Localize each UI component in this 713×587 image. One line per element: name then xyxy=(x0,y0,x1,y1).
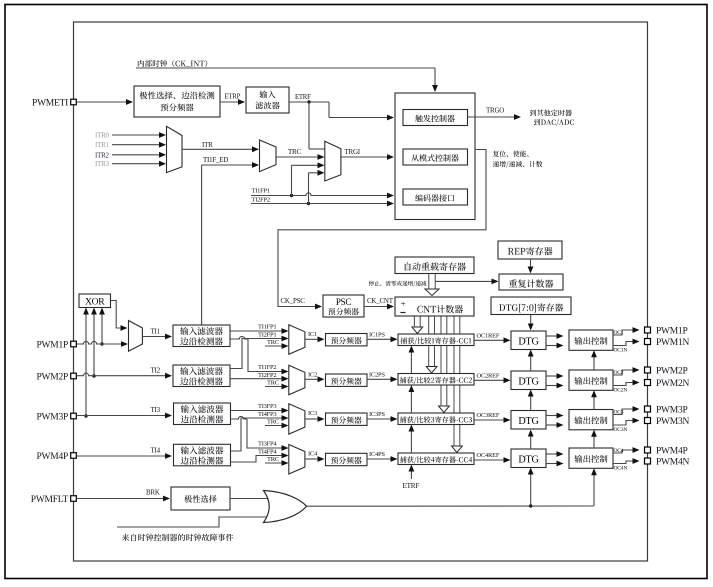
label TRC (top) xyxy=(288,148,301,156)
svg-text:TI4: TI4 xyxy=(151,447,161,455)
block 预分频器 CH4 xyxy=(326,453,368,465)
block 输出控制 CH2 xyxy=(569,370,613,390)
wire internal clock CK_INT xyxy=(136,68,438,92)
label TI2 xyxy=(151,367,161,375)
wire PWM3P (TI3) xyxy=(77,413,173,419)
svg-text:IC1PS: IC1PS xyxy=(369,331,385,338)
label IC2PS xyxy=(369,371,385,378)
svg-text:ETRP: ETRP xyxy=(225,94,241,101)
terminal PWM4N output xyxy=(645,458,651,464)
label ETRF xyxy=(295,94,311,101)
block PSC 预分频器 xyxy=(323,295,364,317)
svg-text:PWM1N: PWM1N xyxy=(656,338,689,348)
terminal PWM1P input xyxy=(71,341,77,347)
label TRC (ch3) xyxy=(267,419,279,426)
svg-text:IC4PS: IC4PS xyxy=(369,451,385,458)
label PWMETI xyxy=(32,98,68,108)
svg-text:BRK: BRK xyxy=(146,489,160,497)
svg-text:PWM4P: PWM4P xyxy=(37,452,68,462)
label TRC (ch2) xyxy=(267,380,279,387)
svg-text:PWM4P: PWM4P xyxy=(656,446,687,456)
terminal PWM1N output xyxy=(645,339,651,345)
svg-text:TI1: TI1 xyxy=(151,328,161,336)
wire ITR0 xyxy=(112,132,166,138)
svg-text:IC2: IC2 xyxy=(308,371,317,378)
label PWM3P (output) xyxy=(656,405,687,415)
wire TI2FP2 to encoder xyxy=(251,201,394,207)
block 捕获/比较4寄存器-CC4 xyxy=(398,453,474,465)
wire TRGI xyxy=(341,154,394,160)
svg-text:XOR: XOR xyxy=(85,297,105,308)
block 从模式控制器 xyxy=(403,149,468,165)
label TI2FP1 (ch1) xyxy=(258,331,276,338)
terminal PWMFLT input xyxy=(71,496,77,502)
label TI3FP3 (ch3) xyxy=(258,403,276,410)
svg-text:TI3FP4: TI3FP4 xyxy=(258,441,277,448)
wire REP to repetition counter xyxy=(528,259,534,274)
wire TRC stub ch4 xyxy=(265,460,289,466)
wire IC3 xyxy=(305,416,325,422)
wire ITR xyxy=(182,146,259,152)
wire PWMETI to polarity box xyxy=(77,99,134,105)
wire OCTL3 to OCTL2 xyxy=(591,390,597,409)
svg-text:PWM2P: PWM2P xyxy=(37,372,68,382)
svg-text:PWMETI: PWMETI xyxy=(32,98,68,108)
block 极性选择 (brake polarity) xyxy=(171,487,230,510)
node ETRF junction xyxy=(307,100,310,103)
svg-text:DTG: DTG xyxy=(518,455,539,466)
label TI4FP4 (ch4) xyxy=(258,449,277,456)
wire TRC stub ch1 xyxy=(265,343,289,349)
label TI4 xyxy=(151,447,161,455)
wire TRGO xyxy=(468,114,522,120)
wire CC4 to CC3 capture xyxy=(409,425,415,454)
label OC1REF xyxy=(477,332,500,339)
wire OC1REF xyxy=(474,337,511,343)
bus CNT to CC3 (hollow arrow) xyxy=(439,316,450,413)
wire TRC to TRGI mux xyxy=(276,154,325,160)
block 输入滤波器边沿检测器 CH4 xyxy=(174,444,231,466)
wire IC2PS xyxy=(367,376,398,382)
wire BRK xyxy=(77,496,171,502)
wire OC1N xyxy=(613,339,640,346)
label 复位、使能、递增/递减、计数 xyxy=(493,151,543,168)
wire IC4 xyxy=(305,456,325,462)
wire brake to DTG4 xyxy=(528,468,534,507)
mux IC4 select xyxy=(289,445,305,475)
wire DTG register to DTG1 xyxy=(528,315,534,331)
wire TI2FP2 xyxy=(230,376,289,382)
svg-text:PWM3P: PWM3P xyxy=(37,412,68,422)
svg-text:TRC: TRC xyxy=(288,148,301,156)
wire IC2 xyxy=(305,376,325,382)
wire ITR1 xyxy=(112,142,166,148)
wire DTG4 to DTG3 xyxy=(528,430,534,450)
svg-text:TI4FP3: TI4FP3 xyxy=(258,411,276,418)
wire slave-mode control to PSC (CK_PSC) xyxy=(278,150,486,310)
label PWM3P (input) xyxy=(37,412,68,422)
svg-text:TI2FP2: TI2FP2 xyxy=(252,197,270,204)
terminal PWM2P input xyxy=(71,373,77,379)
node TI2FP2 junction xyxy=(307,202,310,205)
mux TRGI select xyxy=(325,141,341,181)
wire OCTL2 to OCTL1 xyxy=(591,350,597,370)
wire ITR3 xyxy=(112,161,166,167)
svg-text:DTG: DTG xyxy=(518,377,539,388)
label 内部时钟（CK_INT） xyxy=(138,60,207,67)
label PWM1P (input) xyxy=(37,340,68,350)
terminal PWM3N output xyxy=(645,418,651,424)
label IC3 xyxy=(308,410,317,417)
label PWM4P (output) xyxy=(656,446,687,456)
label 来自时钟控制器的时钟故障事件 xyxy=(122,534,234,541)
wire OC2REF xyxy=(474,377,511,383)
label TI1FP1 (ch1) xyxy=(258,324,276,331)
wire IC3PS xyxy=(367,416,398,422)
svg-text:ETRF: ETRF xyxy=(403,482,420,490)
wire TI2FP2 up to TRGI mux xyxy=(309,170,325,204)
svg-text:IC1: IC1 xyxy=(308,331,317,338)
svg-text:TI2FP1: TI2FP1 xyxy=(258,331,276,338)
block trigger-slave-encoder container xyxy=(395,93,475,220)
wire brake to OCTL4 xyxy=(591,468,597,506)
svg-text:OC4: OC4 xyxy=(614,448,624,454)
wire TI1F_ED xyxy=(202,162,259,325)
wire TI4FP3 xyxy=(231,415,289,451)
label OC2 xyxy=(614,370,624,376)
label OC2N xyxy=(614,388,628,394)
svg-text:OC1: OC1 xyxy=(614,330,624,336)
block 捕获/比较1寄存器-CC1 xyxy=(398,334,474,346)
label TI1F_ED xyxy=(203,156,228,164)
block 预分频器 CH3 xyxy=(326,413,368,425)
wire DTG1 to output control xyxy=(546,333,564,348)
svg-text:ITR0: ITR0 xyxy=(95,132,110,140)
mux TRC select xyxy=(260,140,277,172)
svg-text:TI4FP4: TI4FP4 xyxy=(258,449,277,456)
label ITR1 xyxy=(95,141,110,149)
svg-text:OC3N: OC3N xyxy=(614,427,628,433)
block CNT计数器 xyxy=(395,297,474,316)
mux IC3 select xyxy=(289,404,305,434)
block 输入滤波器边沿检测器 CH3 xyxy=(174,403,231,425)
block DTG CH4 xyxy=(511,449,546,468)
label BRK xyxy=(146,489,160,497)
svg-text:PWM3N: PWM3N xyxy=(656,417,689,427)
wire TI1 xyxy=(142,334,172,340)
wire PWM2P (TI2) xyxy=(77,373,173,379)
label IC3PS xyxy=(369,411,385,418)
svg-text:OC2REF: OC2REF xyxy=(477,372,500,379)
block REP寄存器 xyxy=(498,241,562,259)
label TRGO xyxy=(486,107,504,115)
svg-text:IC3: IC3 xyxy=(308,410,317,417)
mux IC1 select xyxy=(289,325,305,355)
label ETRF (bottom) xyxy=(403,482,420,490)
label TI3 xyxy=(151,406,161,414)
wire TRC stub ch3 xyxy=(265,423,289,429)
wire PWM1P xyxy=(77,341,129,347)
svg-text:OC1N: OC1N xyxy=(614,348,628,354)
label 停止、清零或递增/递减 xyxy=(369,281,427,287)
svg-text:TI1FP2: TI1FP2 xyxy=(258,364,276,371)
label OC1 xyxy=(614,330,624,336)
label CK_PSC xyxy=(281,297,306,305)
svg-text:+: + xyxy=(401,299,406,309)
wire ETRP xyxy=(220,99,245,105)
wire PWM3P feed to XOR xyxy=(83,308,89,418)
block 编码器接口 xyxy=(403,189,468,205)
wire OC4 xyxy=(613,447,640,453)
mux ITR select xyxy=(167,126,183,172)
wire TI3FP3 xyxy=(231,408,289,414)
label TI1 xyxy=(151,328,161,336)
label OC4N xyxy=(614,466,628,472)
label ITR3 xyxy=(95,160,110,168)
wire auto-reload to repetition counter xyxy=(435,279,498,285)
svg-text:TI2: TI2 xyxy=(151,367,161,375)
label 到其他定时器 到DAC/ADC xyxy=(530,110,574,127)
svg-text:OC2: OC2 xyxy=(614,370,624,376)
wire TI1FP2 xyxy=(230,336,289,374)
label PWM2N (output) xyxy=(656,379,689,389)
bus auto-reload to CNT (hollow arrow) xyxy=(425,274,439,296)
block 捕获/比较3寄存器-CC3 xyxy=(398,413,474,425)
wire ITR2 xyxy=(112,152,166,158)
wire OCTL4 to OCTL3 xyxy=(591,430,597,448)
label PWM4P (input) xyxy=(37,452,68,462)
wire PWM2P feed to XOR xyxy=(91,308,97,378)
label OC1N xyxy=(614,348,628,354)
svg-text:DTG: DTG xyxy=(518,337,539,348)
label TI1FP2 (ch2) xyxy=(258,364,276,371)
wire TI1FP1 to encoder xyxy=(251,193,394,199)
wire OC1 xyxy=(613,327,640,335)
block 输入滤波器边沿检测器 CH2 xyxy=(173,365,230,387)
svg-text:IC2PS: IC2PS xyxy=(369,371,385,378)
label ITR2 xyxy=(95,151,110,159)
wire ETRF to trigger controller xyxy=(289,102,394,120)
svg-text:TRC: TRC xyxy=(267,339,279,346)
wire OC4REF xyxy=(474,457,511,463)
wire DTG2 to DTG1 xyxy=(528,350,534,372)
wire OC3N xyxy=(613,418,640,425)
wire XOR output to TI1 mux xyxy=(111,301,128,331)
wire CK_CNT xyxy=(364,304,394,310)
svg-text:PWMFLT: PWMFLT xyxy=(31,495,69,505)
bus CNT to CC4 (hollow arrow) xyxy=(452,316,463,453)
label IC1 xyxy=(308,331,317,338)
svg-text:ITR: ITR xyxy=(202,141,213,149)
svg-text:TI1FP1: TI1FP1 xyxy=(252,188,270,195)
svg-text:PWM2N: PWM2N xyxy=(656,379,689,389)
svg-text:TI3FP3: TI3FP3 xyxy=(258,403,276,410)
svg-text:DTG: DTG xyxy=(518,416,539,427)
svg-text:ETRF: ETRF xyxy=(295,94,311,101)
block 输入滤波器边沿检测器 CH1 xyxy=(173,325,230,347)
svg-text:PWM2P: PWM2P xyxy=(656,366,687,376)
block DTG CH2 xyxy=(511,371,546,390)
label IC1PS xyxy=(369,331,385,338)
svg-text:OC4N: OC4N xyxy=(614,466,628,472)
wire brake rail xyxy=(307,505,595,507)
wire IC1PS xyxy=(367,336,398,342)
label PWM2P (input) xyxy=(37,372,68,382)
block 自动重载寄存器 xyxy=(395,257,474,274)
block 重复计数器 xyxy=(499,274,563,290)
label OC3REF xyxy=(477,412,500,419)
mux TI1 select xyxy=(129,321,143,352)
block 预分频器 CH2 xyxy=(326,374,368,386)
node brake-DTG junction xyxy=(529,504,532,507)
label PWM1N (output) xyxy=(656,338,689,348)
wire DTG2 to output control xyxy=(546,373,564,388)
label OC4 xyxy=(614,448,624,454)
svg-text:ITR3: ITR3 xyxy=(95,160,110,168)
label TRC (ch4) xyxy=(267,456,279,463)
label CK_CNT xyxy=(367,297,394,305)
svg-text:TRGI: TRGI xyxy=(345,148,361,156)
label ITR0 xyxy=(95,132,110,140)
wire TI1FP1 xyxy=(230,328,289,334)
svg-text:PWM1P: PWM1P xyxy=(37,340,68,350)
wire DTG3 to output control xyxy=(546,413,564,428)
label OC2REF xyxy=(477,372,500,379)
svg-text:PWM4N: PWM4N xyxy=(656,457,689,467)
svg-text:CK_PSC: CK_PSC xyxy=(281,297,306,305)
terminal PWM2N output xyxy=(645,380,651,386)
wire TI4FP4 xyxy=(231,453,289,462)
svg-text:TI3: TI3 xyxy=(151,406,161,414)
wire CC2 to CC1 capture xyxy=(409,346,415,374)
svg-text:IC4: IC4 xyxy=(308,451,318,458)
label IC2 xyxy=(308,371,317,378)
wire OC3 xyxy=(613,406,640,414)
label PWM2P (output) xyxy=(656,366,687,376)
label TI2FP2 (encoder) xyxy=(252,197,270,204)
svg-text:ITR2: ITR2 xyxy=(95,151,110,159)
label OC4REF xyxy=(477,452,500,459)
block 捕获/比较2寄存器-CC2 xyxy=(398,374,474,386)
svg-text:TI2FP2: TI2FP2 xyxy=(258,372,276,379)
wire OC2 xyxy=(613,367,640,375)
svg-text:PWM1P: PWM1P xyxy=(656,326,687,336)
label ETRP xyxy=(225,94,241,101)
svg-text:TRGO: TRGO xyxy=(486,107,504,115)
label PWM1P (output) xyxy=(656,326,687,336)
wire TI2FP1 xyxy=(230,336,289,369)
wire TI3FP4 xyxy=(231,416,289,451)
label OC3N xyxy=(614,427,628,433)
terminal PWM1P output xyxy=(645,327,651,333)
svg-text:PWM3P: PWM3P xyxy=(656,405,687,415)
svg-text:OC1REF: OC1REF xyxy=(477,332,500,339)
label IC4 xyxy=(308,451,318,458)
wire PWM1P feed to XOR xyxy=(99,308,105,346)
svg-text:TI1F_ED: TI1F_ED xyxy=(203,156,228,164)
svg-text:TRC: TRC xyxy=(267,419,279,426)
wire ETRF into CC4 xyxy=(409,465,415,480)
bus CNT to CC2 (hollow arrow) xyxy=(426,316,437,373)
wire PWM4P (TI4) xyxy=(77,453,173,459)
label TI3FP4 (ch4) xyxy=(258,441,277,448)
wire TRC stub ch2 xyxy=(265,384,289,390)
block 输入滤波器 (ETR input filter) xyxy=(246,87,289,113)
terminal PWMETI xyxy=(71,99,77,105)
block XOR xyxy=(79,294,111,308)
block DTG CH3 xyxy=(511,411,546,430)
label PWM3N (output) xyxy=(656,417,689,427)
svg-text:TI1FP1: TI1FP1 xyxy=(258,324,276,331)
wire CC3 to CC2 capture xyxy=(409,385,415,413)
terminal PWM3P input xyxy=(71,413,77,419)
label TI1FP1 (encoder) xyxy=(252,188,270,195)
label TRC (ch1) xyxy=(267,339,279,346)
label TI4FP3 (ch3) xyxy=(258,411,276,418)
wire ETRF down to TRGI mux xyxy=(309,102,325,149)
terminal PWM4P input xyxy=(71,453,77,459)
wire OC3REF xyxy=(474,417,511,423)
wire OC2N xyxy=(613,380,640,386)
block 极性选择、边沿检测 预分频器 xyxy=(134,86,220,117)
svg-text:OC3: OC3 xyxy=(614,410,624,416)
label OC3 xyxy=(614,410,624,416)
label TRGI xyxy=(345,148,361,156)
label IC4PS xyxy=(369,451,385,458)
svg-text:TRC: TRC xyxy=(267,456,279,463)
block 输出控制 CH4 xyxy=(569,448,613,468)
block 输出控制 CH1 xyxy=(569,330,613,350)
gate OR (brake combine) xyxy=(264,491,307,523)
label TI2FP2 (ch2) xyxy=(258,372,276,379)
block 预分频器 CH1 xyxy=(326,334,368,346)
wire TI1FP1 up to TRGI mux xyxy=(292,162,325,195)
block DTG CH1 xyxy=(511,331,546,350)
label PWM4N (output) xyxy=(656,457,689,467)
bus CNT to CC1 (hollow arrow) xyxy=(412,316,423,334)
terminal PWM3P output xyxy=(645,406,651,412)
timer module boundary box xyxy=(74,22,648,561)
wire DTG3 to DTG2 xyxy=(528,390,534,411)
wire IC1 xyxy=(305,336,325,342)
terminal PWM4P output xyxy=(645,447,651,453)
label ITR xyxy=(202,141,213,149)
block 触发控制器 xyxy=(403,110,468,126)
svg-text:TRC: TRC xyxy=(267,380,279,387)
svg-text:OC2N: OC2N xyxy=(614,388,628,394)
wire IC4PS xyxy=(367,456,398,462)
svg-text:IC3PS: IC3PS xyxy=(369,411,385,418)
mux IC2 select xyxy=(289,365,305,395)
svg-text:PSC: PSC xyxy=(336,297,352,307)
wire OC4N xyxy=(613,458,640,464)
svg-text:OC3REF: OC3REF xyxy=(477,412,500,419)
wire polarity to OR gate xyxy=(230,498,269,500)
label PWMFLT xyxy=(31,495,69,505)
wire clock failure event xyxy=(117,517,268,527)
block DTG[7:0]寄存器 xyxy=(491,297,571,315)
terminal PWM2P output xyxy=(645,367,651,373)
svg-text:CK_CNT: CK_CNT xyxy=(367,297,394,305)
svg-text:OC4REF: OC4REF xyxy=(477,452,500,459)
svg-text:ITR1: ITR1 xyxy=(95,141,110,149)
block 输出控制 CH3 xyxy=(569,410,613,430)
node TI1FP1 junction xyxy=(290,194,293,197)
wire DTG4 to output control xyxy=(546,451,564,466)
